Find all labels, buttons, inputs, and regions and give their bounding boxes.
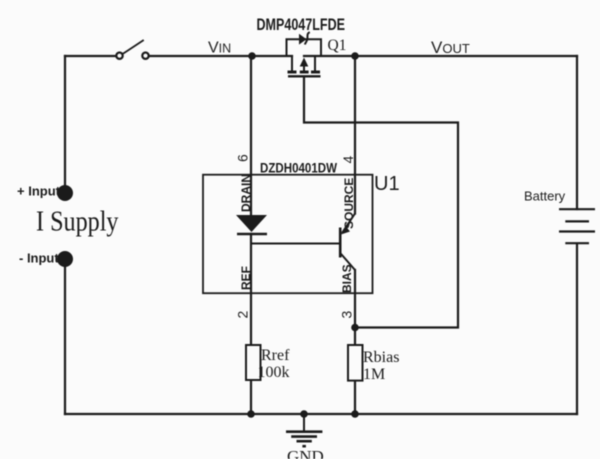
node VOUT junction xyxy=(351,52,359,60)
wire VIN vertical pin6 xyxy=(250,56,252,215)
svg-text:- Input: - Input xyxy=(19,251,59,266)
body arrow head xyxy=(300,58,309,67)
wire top rail left xyxy=(65,55,116,57)
node Rbias bottom xyxy=(351,410,359,418)
svg-text:BIAS: BIAS xyxy=(340,264,354,293)
svg-text:3: 3 xyxy=(339,311,355,319)
wire left vertical from +Input up xyxy=(64,56,66,186)
svg-text:DRAIN: DRAIN xyxy=(239,174,253,212)
terminal - Input xyxy=(57,251,73,267)
node Rref bottom xyxy=(247,410,255,418)
svg-text:I Supply: I Supply xyxy=(36,207,119,238)
resistor Rbias xyxy=(348,345,363,381)
node GND junction xyxy=(300,410,308,418)
switch xyxy=(116,41,148,59)
gate plate xyxy=(288,75,321,77)
svg-text:6: 6 xyxy=(235,154,251,162)
body diode loop xyxy=(287,39,322,56)
transistor internal PNP xyxy=(340,214,355,271)
diode D1 (zener in U1) xyxy=(236,215,267,232)
wire Rbias to bottom rail xyxy=(354,381,356,414)
transistor Q1 (P-MOSFET) xyxy=(288,56,321,76)
svg-text:VOUT: VOUT xyxy=(431,38,470,57)
wire battery bottom xyxy=(576,244,578,414)
transistor arrow head xyxy=(341,226,350,235)
svg-text:GND: GND xyxy=(287,447,324,459)
svg-text:+ Input: + Input xyxy=(17,184,61,199)
node VIN junction xyxy=(248,52,256,60)
wire REF vertical below diode xyxy=(250,234,252,345)
drain leg xyxy=(291,56,293,71)
plates xyxy=(288,71,297,74)
resistor Rref xyxy=(246,345,261,380)
battery BT1 xyxy=(559,209,595,243)
svg-text:Battery: Battery xyxy=(524,189,566,204)
IC U1 box xyxy=(203,175,373,294)
right/source leg xyxy=(314,56,316,71)
svg-text:U1: U1 xyxy=(374,173,400,195)
wire SOURCE vertical pin4 xyxy=(354,56,356,214)
terminal + Input xyxy=(57,185,73,201)
body diode triangle xyxy=(299,34,307,45)
ground xyxy=(286,414,322,446)
wire battery top xyxy=(576,56,578,209)
svg-text:Rbias: Rbias xyxy=(363,349,399,366)
wire BIAS vertical pin3 xyxy=(354,270,356,345)
svg-text:VIN: VIN xyxy=(208,40,231,57)
svg-text:Rref: Rref xyxy=(261,347,290,364)
wire left vertical from -Input down xyxy=(64,262,66,414)
wire gate loop xyxy=(304,77,458,328)
wire Rref to bottom rail xyxy=(250,380,252,414)
svg-text:REF: REF xyxy=(239,266,253,290)
body arrow shaft xyxy=(303,63,305,71)
svg-text:4: 4 xyxy=(340,156,356,164)
node BIAS junction xyxy=(351,324,359,332)
wire bottom rail xyxy=(65,413,577,415)
wire top rail mid xyxy=(149,55,292,57)
svg-text:DZDH0401DW: DZDH0401DW xyxy=(260,160,338,176)
body diode cathode bar xyxy=(305,32,310,44)
wire top rail right (source side to battery) xyxy=(304,55,577,57)
svg-text:Q1: Q1 xyxy=(328,37,347,54)
svg-text:100k: 100k xyxy=(258,364,290,381)
svg-text:1M: 1M xyxy=(363,366,385,383)
wire base connection xyxy=(251,243,339,245)
svg-text:2: 2 xyxy=(235,311,251,319)
svg-text:DMP4047LFDE: DMP4047LFDE xyxy=(257,16,346,34)
